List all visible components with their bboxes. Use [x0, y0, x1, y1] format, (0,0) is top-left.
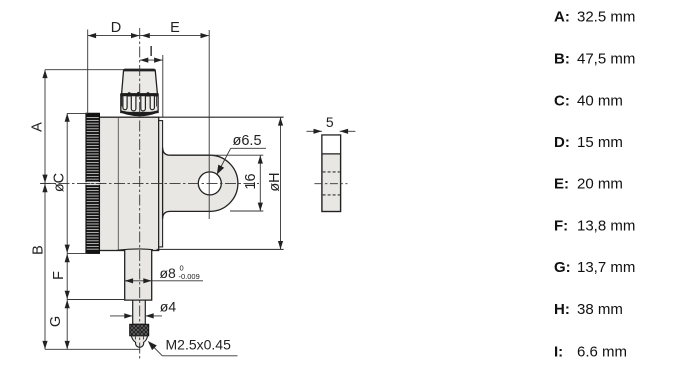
svg-text:ø4: ø4 — [160, 299, 177, 315]
bezel rim inner edge line — [117, 118, 119, 250]
svg-text:B: B — [31, 245, 47, 255]
svg-text:-0.009: -0.009 — [179, 272, 200, 281]
svg-text:G: G — [48, 316, 64, 327]
cap knob — [122, 69, 158, 94]
contact point knurled nut — [130, 324, 149, 336]
A B dimension line — [44, 70, 46, 350]
svg-text:13,7 mm: 13,7 mm — [577, 259, 635, 276]
crown slot 3 — [141, 96, 146, 111]
contact cone chamfer ticks — [134, 336, 136, 339]
svg-text:6.6 mm: 6.6 mm — [577, 344, 627, 361]
crown bottom rim crescent — [121, 110, 158, 116]
svg-text:13,8 mm: 13,8 mm — [577, 218, 635, 235]
G B bottom extension — [45, 348, 140, 350]
side view hidden hole line top — [323, 171, 340, 173]
svg-text:ø8: ø8 — [160, 265, 177, 281]
oC bottom extension — [67, 252, 88, 254]
crown top bar — [120, 93, 158, 96]
dimension line I — [140, 59, 163, 61]
o6.5 leader underline — [231, 147, 266, 149]
contact point cone with ball tip — [131, 336, 147, 348]
back plate sliver — [159, 121, 163, 247]
16 top extension — [210, 154, 263, 156]
o4 dimension arrows — [110, 315, 133, 317]
stem o8 fill — [124, 249, 152, 300]
svg-text:15 mm: 15 mm — [577, 134, 623, 151]
bezel band bottom cap — [86, 250, 100, 254]
svg-text:H:: H: — [554, 301, 570, 318]
cap top extension line — [45, 69, 124, 71]
svg-text:32.5 mm: 32.5 mm — [577, 9, 635, 26]
svg-text:I:: I: — [554, 344, 563, 361]
bezel knurled band — [86, 113, 99, 253]
svg-text:I: I — [149, 44, 153, 60]
D extension line left — [87, 30, 89, 114]
bezel band top cap — [86, 113, 100, 116]
svg-text:47,5 mm: 47,5 mm — [577, 51, 635, 68]
stem o8 outline — [125, 250, 152, 300]
lug hole o6.5 — [198, 172, 221, 195]
spindle o4 — [133, 300, 146, 324]
dimension line D E — [88, 35, 209, 37]
svg-text:D:: D: — [554, 134, 570, 151]
svg-text:20 mm: 20 mm — [577, 176, 623, 193]
crown slot 1 — [123, 96, 127, 109]
cap top edge — [124, 69, 155, 71]
body bottom edge ext (oH bottom) — [157, 248, 284, 250]
value list — [554, 9, 635, 361]
oC top extension — [67, 112, 88, 114]
svg-text:ø6.5: ø6.5 — [233, 133, 262, 149]
svg-text:5: 5 — [326, 114, 334, 130]
body top edge right — [158, 116, 284, 118]
side view hidden hole line bottom — [323, 194, 340, 196]
crown knurled ring — [121, 94, 158, 113]
svg-text:38 mm: 38 mm — [577, 301, 623, 318]
o8 dimension line — [125, 280, 203, 282]
svg-text:øC: øC — [52, 173, 68, 192]
I extension line right — [162, 55, 164, 117]
oH dimension line — [280, 117, 282, 249]
svg-text:G:: G: — [554, 259, 571, 276]
svg-text:M2.5x0.45: M2.5x0.45 — [166, 337, 232, 353]
16 dimension line — [259, 155, 261, 211]
o6.5 leader — [218, 148, 231, 172]
hole vertical center / E extension — [208, 30, 210, 219]
svg-text:E:: E: — [554, 176, 569, 193]
side view divider line — [322, 153, 341, 155]
crown ridge bumps — [128, 92, 131, 95]
body cylinder — [99, 117, 158, 250]
svg-text:E: E — [170, 20, 180, 36]
svg-text:C:: C: — [554, 93, 570, 110]
F bottom extension — [67, 299, 125, 301]
M2.5 leader underline — [162, 355, 237, 357]
crown edge slot left — [121, 96, 123, 106]
svg-text:A:: A: — [554, 9, 570, 26]
svg-text:F:: F: — [554, 218, 568, 235]
oC F G dimension line — [66, 113, 68, 349]
svg-text:16: 16 — [243, 173, 259, 189]
lug plate with disc — [163, 148, 238, 219]
svg-text:40 mm: 40 mm — [577, 93, 623, 110]
svg-text:øH: øH — [267, 172, 283, 191]
M2.5 leader — [150, 343, 163, 356]
side view top white section — [323, 136, 340, 154]
5 dimension line — [307, 130, 322, 132]
vertical center line — [139, 28, 141, 361]
crown slot 4 — [150, 96, 154, 109]
side view plate — [322, 135, 341, 212]
svg-text:D: D — [111, 20, 121, 36]
bezel band centerline break — [85, 182, 100, 185]
A B junction tick — [41, 182, 55, 184]
svg-text:F: F — [51, 271, 67, 280]
side view center line — [314, 183, 347, 185]
16 bottom extension — [230, 210, 263, 212]
stem shoulder arc — [118, 249, 154, 250]
svg-text:B:: B: — [554, 51, 570, 68]
crown edge slot right — [156, 96, 158, 106]
svg-text:A: A — [30, 122, 46, 132]
crown slot 2 — [131, 96, 136, 111]
horizontal center line (lug axis) — [40, 182, 259, 184]
